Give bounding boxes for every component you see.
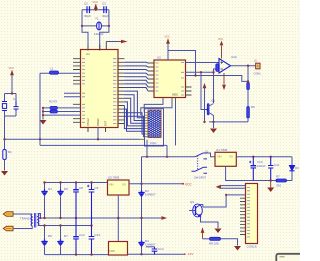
svg-text:D7: D7 bbox=[64, 234, 68, 238]
power port opamp top bbox=[221, 46, 223, 59]
RP1 pin stubs bbox=[145, 112, 148, 136]
svg-text:30pF: 30pF bbox=[84, 14, 91, 18]
capacitor C7 bbox=[268, 157, 280, 181]
wire J3 top pin 2 bbox=[221, 187, 246, 189]
wire switch to U4 bbox=[207, 153, 215, 157]
transformer T1 bbox=[20, 213, 39, 228]
wire R8 right to gnd drop bbox=[221, 239, 238, 246]
connector J3 body bbox=[246, 184, 258, 244]
junction base bbox=[200, 71, 202, 73]
junction rail A left bbox=[3, 138, 5, 140]
svg-text:100uF: 100uF bbox=[257, 164, 266, 168]
wire primary left top bbox=[13, 213, 32, 215]
wire right side down bbox=[108, 10, 110, 26]
connector pin P1b bbox=[3, 226, 13, 231]
wire RP corner down to switch wire bbox=[146, 140, 148, 157]
junction C9 bottom bbox=[90, 224, 92, 226]
RP1 outline box bbox=[145, 109, 164, 146]
svg-text:U2: U2 bbox=[157, 56, 161, 60]
resistor R6 vertical bbox=[247, 107, 250, 119]
junction vertical bottom bbox=[140, 253, 142, 255]
wire U3 gnd down bbox=[117, 195, 119, 242]
power port arrow up U2 bbox=[167, 39, 169, 45]
wire cap to resistor bbox=[247, 96, 249, 107]
J3 pin stubs left bbox=[240, 198, 246, 234]
wire secondary bottom bbox=[38, 225, 41, 227]
op-amp U3A triangle bbox=[219, 55, 237, 73]
junction crystal left bbox=[81, 25, 83, 27]
power arrow right end of rail bbox=[161, 217, 163, 219]
junction U3 gnd rail bbox=[117, 217, 119, 219]
wire Q3 collector up bbox=[201, 205, 203, 208]
transistor Q1 bbox=[207, 99, 215, 122]
diode D7 lower column bbox=[57, 226, 68, 255]
wire rail A bbox=[5, 138, 140, 140]
junction stack b bbox=[42, 110, 44, 112]
wire U2 right bottom down to rail B bbox=[175, 104, 177, 145]
wire U4 out rail bbox=[236, 156, 292, 158]
svg-text:U4 7805: U4 7805 bbox=[216, 148, 228, 152]
wire left long vertical bbox=[39, 73, 41, 145]
wire branch right from U2 power bbox=[168, 51, 196, 76]
junction C9 top bbox=[90, 181, 92, 183]
wire EA with inductor from left vertical bbox=[40, 72, 81, 74]
junction rail A x40 bbox=[39, 138, 41, 140]
RP bottom pin stub bbox=[140, 138, 145, 140]
capacitor C12 lower bbox=[73, 218, 85, 255]
wire R4 to ground bbox=[4, 160, 6, 171]
wire stack left vertical bbox=[42, 108, 44, 120]
svg-text:VO: VO bbox=[229, 155, 233, 159]
wire loop bottom bbox=[5, 115, 17, 117]
title block corner bbox=[276, 254, 302, 261]
junction C8 top bbox=[75, 181, 77, 183]
wire rail B bbox=[40, 144, 167, 146]
U2 right lower pin stubs bbox=[186, 87, 192, 95]
wire P1 pins short left a bbox=[64, 92, 81, 94]
net label red dot bbox=[182, 183, 184, 185]
wire U4 gnd pin down right bbox=[226, 166, 292, 180]
net label end dot bbox=[184, 253, 186, 255]
diode D1 on vertical bbox=[138, 189, 156, 197]
LED D3 bbox=[289, 157, 299, 181]
resistor R4 below rail A left bbox=[4, 139, 6, 149]
svg-text:1N4007: 1N4007 bbox=[145, 243, 156, 247]
svg-text:D5: D5 bbox=[64, 187, 68, 191]
resistor R8 horizontal bbox=[210, 237, 221, 240]
power port arrow up left bbox=[11, 71, 13, 77]
capacitor C13 lower bbox=[89, 226, 101, 255]
junction C13 bottom bbox=[90, 253, 92, 255]
resistor R5 vertical between bbox=[216, 64, 219, 72]
wire secondary top to rail bbox=[38, 214, 41, 219]
junction stack a bbox=[42, 107, 44, 109]
svg-text:VIN: VIN bbox=[217, 155, 221, 159]
wire output down bbox=[247, 66, 249, 84]
wire staircase bus to RP bbox=[124, 91, 145, 137]
capacitor C2 series on top wire bbox=[104, 6, 107, 13]
wire Q1 base bbox=[201, 72, 209, 109]
svg-text:7905: 7905 bbox=[109, 249, 115, 253]
wire switch common bbox=[142, 156, 196, 158]
wire rail bottom minus bbox=[45, 254, 109, 256]
svg-text:U5 7805: U5 7805 bbox=[108, 176, 120, 180]
junction tap bbox=[212, 71, 214, 73]
wire top rail bbox=[82, 9, 109, 11]
junction bottom wire bbox=[203, 121, 205, 123]
ground U4 bbox=[270, 181, 272, 188]
resistor R7 horizontal on gnd wire bbox=[276, 179, 287, 182]
connector pin P1a bbox=[3, 212, 13, 217]
U2 left pin stubs bbox=[148, 63, 154, 91]
U2 inner pin marks right bbox=[181, 63, 184, 96]
svg-text:Q3: Q3 bbox=[190, 200, 194, 204]
svg-text:C11: C11 bbox=[274, 163, 280, 167]
resistor R2 on row1 bbox=[50, 106, 57, 109]
junction D4 top bbox=[43, 181, 45, 183]
U1 left pin stubs lower group bbox=[73, 104, 81, 122]
svg-text:R1: R1 bbox=[8, 150, 12, 154]
U2 inner pin marks left bbox=[156, 63, 159, 91]
junction D5 bottom bbox=[59, 217, 61, 219]
svg-text:C12: C12 bbox=[79, 233, 85, 237]
junction U3 out bbox=[140, 183, 142, 185]
wire stack row3 bbox=[43, 114, 81, 116]
junction D4 bottom bbox=[43, 217, 45, 219]
wire P1 pins short left b bbox=[64, 96, 81, 98]
wire stack row1 bbox=[43, 107, 81, 109]
wire U3 out bbox=[129, 183, 183, 185]
svg-text:CON1: CON1 bbox=[254, 72, 262, 76]
wire loop sides bbox=[5, 94, 17, 117]
U2 top pin wire to power bbox=[167, 45, 169, 61]
svg-text:30pF: 30pF bbox=[102, 14, 109, 18]
svg-text:330: 330 bbox=[276, 184, 281, 188]
capacitor C8 electrolytic top bbox=[73, 183, 83, 219]
wire J3 pin 3 to Q3 collector bbox=[203, 195, 246, 207]
svg-text:C2: C2 bbox=[84, 2, 88, 6]
U1 bottom pin stubs bbox=[88, 128, 106, 133]
U1 right pin stubs bbox=[118, 59, 124, 124]
wire stack row2 bbox=[43, 111, 81, 113]
U2 bottom pin stubs bbox=[163, 98, 176, 105]
junction output bbox=[247, 65, 249, 67]
power arrow up R8 bbox=[202, 228, 204, 239]
junction crystal right bbox=[108, 25, 110, 27]
RP1 body crosshatch bbox=[148, 110, 161, 137]
svg-text:C4: C4 bbox=[13, 97, 17, 101]
ground opamp section bbox=[210, 129, 217, 134]
svg-text:ADC: ADC bbox=[172, 93, 179, 97]
svg-text:C13: C13 bbox=[95, 233, 101, 237]
svg-text:Q1: Q1 bbox=[211, 99, 215, 103]
wire U2 out 2 bbox=[186, 69, 220, 72]
power port arrow right bbox=[121, 40, 128, 44]
wire R8 left bbox=[203, 238, 210, 240]
junction bbox=[95, 9, 97, 11]
U1 left pin stubs top group bbox=[73, 59, 81, 84]
junction C12 bottom bbox=[75, 253, 77, 255]
wire RST pin to power arrow right bbox=[106, 41, 118, 43]
wire loop down to rail bbox=[4, 116, 6, 139]
capacitor C4 bbox=[14, 101, 19, 111]
wire rail B right bend down bbox=[166, 145, 168, 156]
svg-text:1N4007: 1N4007 bbox=[145, 193, 156, 197]
junction bottom wire 2 bbox=[212, 121, 214, 123]
wire tap vertical from U2 out bbox=[213, 72, 215, 103]
diode D2 on vertical bbox=[138, 239, 156, 247]
wire crystal left down to pin XTAL2 bbox=[82, 26, 88, 50]
U2 body bbox=[154, 60, 186, 98]
U1 bottom pin wire to rail bbox=[97, 128, 99, 140]
U1 top pin stubs bbox=[88, 45, 100, 51]
power port opamp bottom bbox=[223, 73, 225, 85]
svg-text:VCC: VCC bbox=[93, 1, 98, 4]
wire crystal right down to pin XTAL1 bbox=[100, 26, 109, 50]
svg-text:C3: C3 bbox=[102, 2, 106, 6]
svg-text:VCC: VCC bbox=[9, 67, 14, 70]
svg-text:U1: U1 bbox=[86, 52, 90, 56]
junction base at bar bbox=[206, 108, 208, 110]
svg-text:C14: C14 bbox=[158, 247, 164, 251]
J3 inner pin numbers bbox=[247, 188, 250, 238]
resistor R3 on row2 bbox=[50, 110, 57, 113]
svg-text:CON16: CON16 bbox=[247, 245, 257, 249]
wire power stem to bottom wire bbox=[204, 89, 206, 122]
junction D7 top bbox=[59, 224, 61, 226]
svg-text:16pin: 16pin bbox=[150, 141, 157, 145]
crystal Y1 bbox=[82, 17, 109, 37]
wire U2 bottom pin to RP row1 bbox=[144, 100, 163, 112]
svg-text:VIN: VIN bbox=[109, 183, 113, 187]
svg-text:D3: D3 bbox=[295, 166, 299, 170]
regulator U4 body bbox=[215, 152, 236, 166]
junction stack c bbox=[42, 114, 44, 116]
junction vertical rail219 bbox=[140, 217, 142, 219]
wire opamp output bbox=[231, 65, 256, 67]
wire J3 top pin 1 bbox=[221, 185, 246, 187]
power arrow left J3 bbox=[216, 185, 221, 189]
svg-text:D4: D4 bbox=[48, 187, 52, 191]
regulator U3 body bbox=[108, 180, 130, 195]
crystal Y2 bbox=[2, 102, 7, 111]
junction D5 top bbox=[59, 181, 61, 183]
power port small down with stem bbox=[204, 85, 206, 89]
diode D4 column bbox=[41, 183, 52, 219]
U1 inner pin numbers left column bbox=[82, 59, 85, 123]
junction C8 bottom bbox=[75, 217, 77, 219]
junction rail B drop bbox=[166, 156, 168, 158]
junction RP corner bbox=[146, 156, 148, 158]
ground below stack bbox=[40, 120, 47, 125]
svg-text:VO: VO bbox=[122, 183, 126, 187]
svg-text:C8: C8 bbox=[79, 186, 83, 190]
svg-text:-12V: -12V bbox=[187, 252, 193, 256]
ground Q3 bbox=[215, 229, 222, 234]
wire rail top plus bbox=[45, 182, 108, 184]
wire U5 out right bbox=[128, 253, 185, 255]
junction gnd wire bbox=[270, 179, 272, 181]
regulator U5 body bbox=[109, 242, 128, 256]
svg-text:VCC: VCC bbox=[185, 183, 192, 187]
switch S1 bbox=[192, 150, 209, 180]
inductor L1 on EA wire bbox=[50, 71, 59, 74]
svg-text:R7: R7 bbox=[276, 175, 280, 179]
wire ground stem bbox=[213, 122, 215, 128]
wire rail mid lower bbox=[41, 225, 92, 227]
capacitor C6 electrolytic bbox=[249, 157, 266, 181]
transistor Q3 bbox=[190, 200, 202, 217]
wire bus P0 lines to U2 bbox=[124, 62, 148, 91]
svg-text:XTAL2: XTAL2 bbox=[86, 118, 90, 126]
wire U2 bottom pin to RP row2 bbox=[141, 100, 172, 115]
svg-text:VCC: VCC bbox=[218, 38, 223, 41]
svg-text:TRANS1: TRANS1 bbox=[20, 217, 31, 221]
capacitor C9 top bbox=[87, 183, 99, 226]
svg-text:U3A: U3A bbox=[231, 55, 237, 59]
wire resistor to bottom wire bbox=[247, 118, 249, 122]
U1 inner pin numbers right column bbox=[113, 59, 117, 124]
wire loop top bbox=[5, 93, 17, 95]
capacitor C14 right of U5 bbox=[146, 247, 164, 255]
wire power stem down bbox=[11, 76, 13, 94]
svg-text:SW-DPDT: SW-DPDT bbox=[194, 176, 206, 180]
svg-text:R6: R6 bbox=[251, 105, 255, 109]
junction at 195.5 bbox=[194, 74, 196, 76]
wire Q3 base stub bbox=[189, 210, 196, 212]
wire U2 out top to opamp plus bbox=[186, 62, 220, 64]
junction secondary top bbox=[39, 217, 41, 219]
resistor R9 small pill on output branch bbox=[247, 81, 249, 96]
wire vertical switch feed bbox=[141, 157, 143, 254]
pin stub top bbox=[105, 42, 107, 51]
svg-text:L1: L1 bbox=[50, 67, 54, 71]
svg-text:C9: C9 bbox=[95, 186, 99, 190]
junction U4 out b bbox=[270, 156, 272, 158]
junction U4 out a bbox=[252, 156, 254, 158]
wire bottom horizontal bbox=[209, 121, 248, 123]
power port VCC arrow up bbox=[95, 4, 97, 10]
ground right bbox=[234, 246, 241, 251]
junction loop top bbox=[11, 92, 13, 94]
junction D6 top bbox=[43, 224, 45, 226]
capacitor C1 series on top wire bbox=[87, 6, 90, 13]
wire feedback lower bbox=[186, 76, 249, 82]
IC U1 body bbox=[81, 50, 119, 128]
svg-text:Y1: Y1 bbox=[95, 17, 99, 21]
junction feedback bbox=[247, 80, 249, 82]
svg-text:D6: D6 bbox=[48, 234, 52, 238]
svg-text:VCC: VCC bbox=[165, 36, 170, 39]
wire left side down bbox=[81, 10, 83, 26]
wire primary left bottom bbox=[13, 226, 32, 229]
junction rail A U1 stub bbox=[97, 138, 99, 140]
svg-text:R2 R3: R2 R3 bbox=[49, 100, 57, 104]
svg-text:XTAL1: XTAL1 bbox=[96, 118, 100, 126]
ground left bbox=[1, 171, 8, 176]
diode D6 lower column bbox=[41, 226, 52, 255]
connector J2 small box bbox=[256, 63, 260, 69]
svg-text:RST: RST bbox=[104, 120, 108, 126]
svg-text:R8 10K: R8 10K bbox=[209, 242, 219, 246]
diode D5 column bbox=[57, 183, 68, 219]
wire Q3 emitter to ground bbox=[201, 217, 219, 229]
wire rail mid upper bbox=[41, 217, 161, 219]
junction J3 wire 3 bbox=[225, 194, 227, 196]
